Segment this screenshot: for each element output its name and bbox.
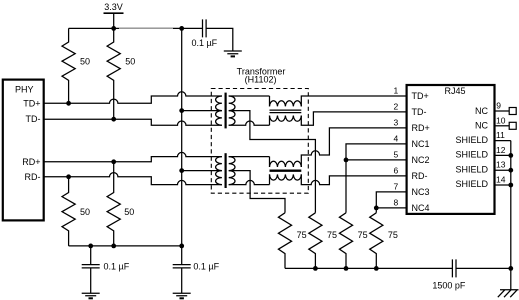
svg-text:5: 5 — [393, 149, 398, 159]
wire RX secondary center tap to R5 — [229, 171, 285, 213]
chassis ground — [498, 290, 519, 297]
node NC3/NC4 junction — [374, 206, 379, 211]
svg-text:0.1 µF: 0.1 µF — [104, 261, 130, 271]
svg-text:75: 75 — [297, 230, 307, 240]
svg-text:SHIELD: SHIELD — [455, 164, 488, 174]
svg-text:50: 50 — [80, 56, 90, 66]
svg-text:TD-: TD- — [26, 114, 41, 124]
transformer T1 TX primary winding — [216, 96, 222, 125]
wire RJ45 pin 7 NC3 to R8 — [376, 192, 406, 213]
wire TX primary center tap — [182, 110, 222, 112]
svg-text:PHY: PHY — [15, 85, 34, 95]
wire RX secondary bottom to choke (hops over RX center-tap wire) — [229, 180, 270, 184]
node TD+/R1 junction — [66, 101, 71, 106]
transformer T1 RX secondary winding — [229, 157, 235, 185]
svg-text:12: 12 — [496, 145, 506, 155]
svg-text:7: 7 — [393, 181, 398, 191]
wire RJ45 pin 8 NC4 — [376, 207, 406, 209]
wire RJ45 pin 4 NC1 to R7 — [346, 144, 407, 213]
wire RJ45 pin 10 stub — [495, 125, 510, 127]
ground G2 — [82, 293, 100, 296]
svg-text:50: 50 — [124, 207, 134, 217]
svg-text:NC: NC — [475, 106, 488, 116]
svg-text:RD-: RD- — [25, 172, 41, 182]
wire 3.3V bar to rail — [113, 13, 115, 28]
terminal square pin 10 — [509, 122, 516, 129]
svg-text:TD+: TD+ — [412, 91, 429, 101]
wire RJ45 pin 5 NC2 — [346, 159, 407, 161]
wire choke L1 top-right to RJ45 pin 1 — [301, 96, 406, 106]
wire choke L2 top-left stub — [269, 157, 271, 167]
transformer T1 RX primary winding — [216, 157, 222, 185]
svg-text:2: 2 — [393, 101, 398, 111]
svg-text:RD+: RD+ — [22, 157, 40, 167]
wire C4 to shield node — [456, 267, 511, 269]
wire TD- from PHY to transformer (hops over rail) — [44, 119, 222, 125]
node rail/TX primary center tap — [179, 108, 184, 113]
svg-text:TD-: TD- — [412, 107, 427, 117]
svg-text:0.1 µF: 0.1 µF — [193, 261, 219, 271]
wire TX secondary center tap to R6 — [229, 111, 316, 213]
wire C2 stub — [90, 246, 92, 265]
svg-text:NC: NC — [475, 120, 488, 130]
choke L1 core — [270, 110, 302, 113]
PHY box U1 — [3, 80, 44, 221]
node 3.3V/R2 junction — [111, 26, 116, 31]
resistor R6 75 — [309, 213, 322, 269]
node shield pin 12 — [508, 153, 513, 158]
wire choke L1 bottom-right to RJ45 pin 2 — [301, 112, 406, 125]
resistor R2 50 — [107, 28, 120, 119]
resistor R1 50 — [62, 28, 75, 103]
capacitor C2 0.1uF — [82, 265, 100, 268]
svg-text:0.1 µF: 0.1 µF — [191, 38, 217, 48]
svg-text:1: 1 — [393, 85, 398, 95]
svg-text:13: 13 — [496, 160, 506, 170]
ground G3 — [173, 293, 191, 296]
svg-text:75: 75 — [358, 230, 368, 240]
wire termination rail — [285, 267, 452, 269]
transformer T1 RX core — [225, 153, 227, 188]
RJ45 box J1 — [407, 85, 495, 214]
svg-text:RJ45: RJ45 — [444, 86, 465, 96]
wire shield vertical — [510, 141, 512, 290]
wire TX secondary bottom to choke (hops over TX center-tap wire) — [229, 121, 270, 125]
wire choke L2 top-right to RJ45 pin 3 (hops over R6 wire) — [301, 128, 406, 167]
node shield pin 14 — [508, 183, 513, 188]
svg-text:50: 50 — [80, 207, 90, 217]
svg-text:RD+: RD+ — [412, 123, 430, 133]
node RD+/R4 junction — [111, 159, 116, 164]
resistor R5 75 — [278, 213, 291, 269]
resistor R4 50 — [107, 162, 120, 246]
svg-text:NC2: NC2 — [412, 155, 430, 165]
wire C3 to ground — [181, 268, 183, 293]
wire RJ45 pin 9 stub — [495, 110, 510, 112]
wire choke L2 bottom-left stub — [269, 174, 271, 184]
wire choke L1 top-left stub — [269, 96, 271, 106]
node R6 bottom junction — [313, 266, 318, 271]
svg-text:14: 14 — [496, 175, 506, 185]
wire RJ45 pin 11 stub — [495, 140, 511, 142]
node RD-/R3 junction — [66, 174, 71, 179]
resistor R8 75 — [370, 213, 383, 269]
wire center rail 3.3V down to C3 — [181, 28, 183, 264]
node TD-/R2 junction — [111, 117, 116, 122]
node C2 junction — [88, 244, 93, 249]
ground G1 — [224, 51, 242, 54]
wire RJ45 pin 12 stub — [495, 154, 511, 156]
choke L2 bottom winding — [270, 174, 302, 180]
node rail/C3 junction — [179, 244, 184, 249]
svg-text:(H1102): (H1102) — [245, 75, 277, 85]
wire RX secondary top to choke — [229, 156, 270, 158]
terminal square pin 9 — [509, 108, 516, 115]
svg-text:4: 4 — [393, 133, 398, 143]
svg-text:3: 3 — [393, 117, 398, 127]
choke L1 bottom winding — [270, 116, 302, 122]
svg-text:SHIELD: SHIELD — [455, 135, 488, 145]
svg-text:50: 50 — [125, 56, 135, 66]
node rail/RX primary center tap — [179, 168, 184, 173]
svg-text:9: 9 — [496, 101, 501, 111]
wire bottom-left node — [69, 245, 182, 247]
wire RX primary center tap — [182, 170, 222, 172]
svg-text:75: 75 — [327, 230, 337, 240]
svg-text:3.3V: 3.3V — [104, 2, 123, 12]
wire choke L1 bottom-left stub — [269, 116, 271, 126]
node R8 bottom junction — [374, 266, 379, 271]
node R7 bottom junction — [344, 266, 349, 271]
wire RJ45 pin 13 stub — [495, 169, 511, 171]
capacitor C3 0.1uF — [173, 265, 191, 268]
svg-text:NC1: NC1 — [412, 139, 430, 149]
svg-text:SHIELD: SHIELD — [455, 150, 488, 160]
wire choke L2 bottom-right to RJ45 pin 6 (hops over R6 wire) — [301, 174, 406, 184]
node R4 bottom junction — [111, 244, 116, 249]
node shield pin 13 — [508, 168, 513, 173]
svg-text:SHIELD: SHIELD — [455, 179, 488, 189]
choke L1 top winding — [270, 101, 302, 107]
capacitor C4 1500pF — [452, 259, 456, 277]
wire RD- from PHY to transformer (hops over R4 wire and rail) — [44, 173, 222, 185]
capacitor C1 0.1uF — [203, 19, 207, 37]
transformer T1 TX core — [225, 93, 227, 129]
3.3V supply bar — [104, 12, 124, 14]
choke L2 core — [270, 169, 302, 171]
transformer T1 TX secondary winding — [229, 96, 235, 125]
svg-text:8: 8 — [393, 197, 398, 207]
svg-text:10: 10 — [496, 115, 506, 125]
wire TX secondary top to choke — [229, 95, 270, 97]
svg-text:NC3: NC3 — [412, 187, 430, 197]
wire C1 to ground — [206, 28, 233, 51]
svg-text:TD+: TD+ — [23, 98, 40, 108]
wire RJ45 pin 14 stub — [495, 184, 511, 186]
svg-text:NC4: NC4 — [412, 203, 430, 213]
choke L2 top winding — [270, 161, 302, 167]
svg-text:6: 6 — [393, 165, 398, 175]
wire C2 to ground — [90, 268, 92, 293]
wire rail grey segment — [119, 27, 173, 29]
svg-text:11: 11 — [496, 130, 505, 140]
resistor R3 50 — [62, 177, 75, 246]
transformer T1 dashed box — [211, 89, 308, 194]
node shield/C4 junction — [508, 266, 513, 271]
node NC1/NC2 junction — [344, 158, 349, 163]
svg-text:1500 pF: 1500 pF — [432, 281, 466, 291]
wire TD+ from PHY to transformer (hops over R2 wire and rail) — [44, 92, 222, 104]
svg-text:RD-: RD- — [412, 171, 428, 181]
node rail/center-tap-feed junction — [179, 26, 184, 31]
wire top rail — [69, 27, 203, 29]
wire RD+ from PHY to transformer (hops over rail) — [44, 152, 222, 161]
svg-text:75: 75 — [388, 230, 398, 240]
resistor R7 75 — [339, 213, 352, 269]
